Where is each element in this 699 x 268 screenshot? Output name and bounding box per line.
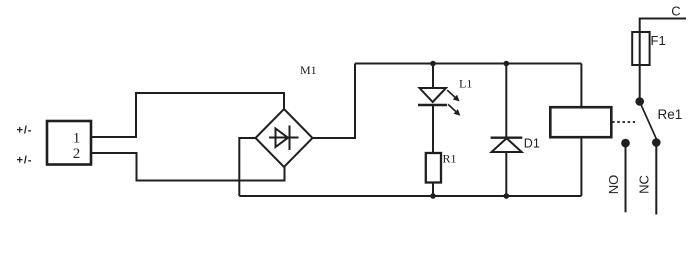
relay coil Re1 (550, 107, 611, 137)
svg-text:R1: R1 (443, 152, 457, 166)
wire: D1 branch from top rail (505, 64, 507, 138)
bridge rectifier M1 body (256, 109, 313, 167)
wire: bridge DC+ (right vertex) up to top rail (313, 64, 356, 139)
svg-text:+/-: +/- (17, 155, 33, 167)
bridge rectifier M1 internal diode (269, 126, 299, 151)
svg-text:+/-: +/- (17, 125, 33, 137)
svg-text:C: C (671, 4, 680, 19)
switch lever (641, 104, 657, 139)
dashed actuation link (612, 121, 635, 123)
contact NO (621, 139, 630, 213)
wire: top rail (DC+) to relay coil branch (355, 63, 581, 65)
wire: bridge DC- (left vertex) down to bottom rail (239, 138, 255, 196)
LED L1 (418, 88, 447, 153)
node: junction bottom rail / D1 branch (504, 193, 510, 199)
wire: pin 2 to bridge AC bottom (92, 153, 285, 181)
svg-text:D1: D1 (524, 137, 540, 151)
svg-text:Re1: Re1 (658, 107, 683, 122)
node: junction top rail / LED branch (430, 61, 436, 67)
contact NC (652, 138, 661, 214)
LED L1 emission arrows (447, 90, 460, 116)
wire: pin 1 to bridge AC top (92, 93, 284, 137)
node: junction top rail / D1 branch (504, 61, 510, 67)
fuse F1 (632, 32, 649, 65)
svg-text:2: 2 (73, 146, 81, 162)
wire: LED branch from top rail (432, 64, 434, 89)
wire: bottom rail (DC-) to relay coil bottom (239, 195, 581, 197)
diode D1 (491, 138, 523, 196)
contact C (common) (635, 97, 644, 106)
resistor R1 (426, 153, 441, 183)
svg-text:L1: L1 (459, 77, 472, 91)
wire: top rail down to relay coil (580, 64, 582, 109)
wire: C terminal top (640, 19, 686, 102)
wire: relay coil to bottom rail (580, 138, 582, 197)
connector J1 terminal box (47, 121, 91, 165)
svg-text:NO: NO (606, 175, 621, 195)
svg-text:1: 1 (73, 131, 81, 147)
svg-text:NC: NC (637, 175, 652, 194)
svg-text:M1: M1 (300, 63, 317, 77)
svg-text:F1: F1 (651, 33, 666, 48)
wire: R1 to bottom rail (432, 183, 434, 197)
node: junction bottom rail / R1 branch (430, 193, 436, 199)
